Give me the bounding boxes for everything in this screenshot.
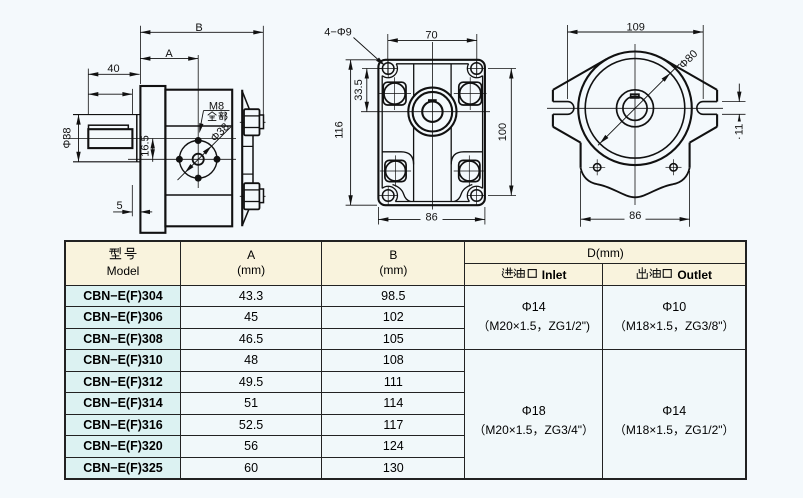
svg-text:70: 70 xyxy=(425,29,437,41)
dimension Phi38 shaft xyxy=(62,115,81,162)
dimension B xyxy=(140,22,263,115)
rear view: right mounting slot xyxy=(697,102,717,115)
front view: port boss bottom-left xyxy=(380,155,411,186)
front view: mounting hole top-left xyxy=(379,60,397,78)
dimension 11 xyxy=(722,84,746,139)
svg-text:86: 86 xyxy=(425,211,437,223)
left view: port vertical centerline xyxy=(197,55,199,188)
left view: front flange block xyxy=(140,86,165,233)
left view: spigot boss lines xyxy=(73,115,140,162)
dimension 86 rear xyxy=(581,171,690,227)
rear view: bottom bracket xyxy=(581,143,690,198)
specification table xyxy=(64,240,747,480)
svg-text:B: B xyxy=(195,22,202,34)
svg-text:33.5: 33.5 xyxy=(353,79,365,100)
svg-text:100: 100 xyxy=(497,123,509,141)
svg-text:A: A xyxy=(165,48,173,60)
rear view: body outer circle xyxy=(578,52,692,166)
dimension A xyxy=(140,48,198,61)
dimension 86 front xyxy=(378,207,485,225)
front view: horizontal centerline xyxy=(361,111,490,113)
rear view: flange outline xyxy=(553,59,717,143)
front view: port boss bottom-right xyxy=(454,155,485,186)
dimension 40 xyxy=(88,63,139,114)
left view: M8 bolt hole right xyxy=(214,156,221,163)
rear view: vertical centerline xyxy=(634,44,636,205)
svg-text:40: 40 xyxy=(107,63,119,75)
rear view: shaft boss and shaft xyxy=(617,90,654,127)
svg-text:11: 11 xyxy=(733,124,745,135)
front view: mounting hole top-right xyxy=(468,60,486,78)
left view: bolt 1 xyxy=(240,109,266,135)
dimension Phi80 (diagonal) xyxy=(598,48,700,145)
front view: inner contour xyxy=(382,64,482,202)
front view: mounting hole bottom-right xyxy=(468,187,486,205)
left view: port centerline xyxy=(128,158,236,160)
svg-text:116: 116 xyxy=(334,121,346,139)
dimension 70 xyxy=(388,29,477,75)
front view: shaft bore circles xyxy=(408,88,456,136)
left view: end cap xyxy=(242,91,253,226)
svg-text:86: 86 xyxy=(629,210,641,222)
svg-text:5: 5 xyxy=(116,200,122,212)
rear view: Phi80 pilot circle xyxy=(585,59,685,159)
rear view: bracket bolt hole right xyxy=(666,159,682,175)
left view: rear plate xyxy=(241,90,243,227)
svg-text:Φ38: Φ38 xyxy=(62,127,74,148)
dimension 109 xyxy=(568,22,704,99)
front view: outer plate xyxy=(378,60,485,205)
left view: shaft key xyxy=(89,125,129,129)
left view: shaft xyxy=(88,129,132,148)
left view: bolt 2 xyxy=(240,183,266,209)
left view: pump body xyxy=(165,90,232,227)
front view: port boss top-left xyxy=(378,77,411,110)
label M8 with leader xyxy=(199,100,229,133)
left view: M8 bolt hole top xyxy=(195,137,202,144)
dimension 100 xyxy=(488,69,516,196)
rear view: horizontal centerline xyxy=(547,107,723,109)
svg-text:4−Φ9: 4−Φ9 xyxy=(324,27,351,39)
dimension 116 xyxy=(334,60,378,205)
dimension shaft-boss (unlabeled) xyxy=(88,89,132,114)
svg-text:Φ38: Φ38 xyxy=(208,121,231,144)
label 4-Phi9 with leader xyxy=(324,27,385,66)
rear view: left mounting slot xyxy=(553,102,574,115)
left view: side port circle xyxy=(179,141,217,179)
svg-text:16.5: 16.5 xyxy=(139,135,151,156)
dimension Phi38 port (diagonal) xyxy=(178,121,232,180)
dimension 33.5 xyxy=(353,69,383,112)
left view: M8 bolt hole bottom xyxy=(195,175,202,182)
rear view: bracket bolt hole left xyxy=(589,159,605,175)
front view: mounting hole bottom-left xyxy=(379,187,397,205)
dimension 16.5 xyxy=(139,135,155,162)
left view: M8 bolt hole left xyxy=(176,156,183,163)
front view: port boss top-right xyxy=(454,77,487,110)
front view: vertical centerline xyxy=(431,42,433,223)
left view: shaft centerline xyxy=(63,138,236,140)
dimension 5 xyxy=(113,185,152,216)
svg-text:109: 109 xyxy=(627,22,645,34)
